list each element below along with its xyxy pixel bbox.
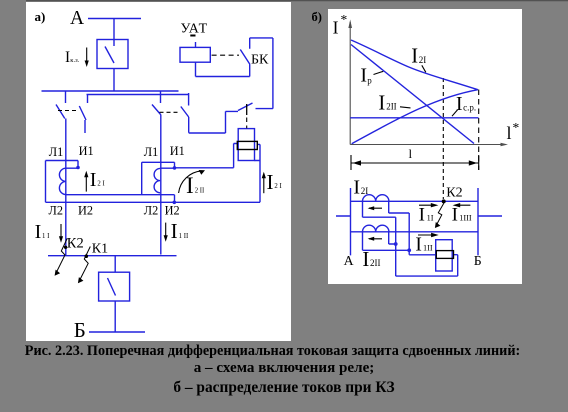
svg-text:I: I (452, 205, 458, 226)
svg-text:б): б) (312, 10, 322, 24)
svg-text:И2: И2 (78, 204, 93, 218)
svg-text:Б: Б (74, 318, 86, 342)
svg-text:I: I (456, 93, 463, 115)
svg-text:I: I (378, 93, 385, 115)
svg-text:*: * (513, 120, 520, 135)
svg-text:с.р.: с.р. (463, 102, 476, 112)
svg-text:I: I (186, 173, 194, 198)
svg-text:I: I (267, 170, 274, 194)
svg-text:I: I (415, 235, 422, 256)
svg-text:2II: 2II (386, 102, 397, 112)
svg-text:Б: Б (474, 253, 482, 268)
svg-text:1 II: 1 II (179, 233, 189, 240)
svg-text:И1: И1 (79, 144, 94, 158)
svg-text:I: I (171, 219, 178, 243)
svg-text:А: А (70, 8, 84, 29)
svg-text:I: I (419, 205, 425, 226)
svg-text:Л2: Л2 (49, 204, 64, 218)
svg-text:а): а) (35, 9, 46, 24)
svg-text:УАТ: УАТ (181, 22, 209, 37)
svg-text:I: I (411, 46, 418, 68)
svg-text:к.з.: к.з. (70, 57, 79, 64)
svg-text:2I: 2I (361, 186, 369, 196)
svg-text:2 I: 2 I (274, 183, 282, 190)
svg-text:И2: И2 (165, 204, 180, 218)
svg-text:1II: 1II (423, 243, 433, 252)
svg-text:К2: К2 (67, 235, 84, 251)
svg-text:l: l (409, 146, 413, 161)
svg-text:2 II: 2 II (195, 187, 205, 194)
svg-text:К2: К2 (446, 185, 462, 200)
svg-text:2II: 2II (370, 258, 381, 268)
svg-text:Л1: Л1 (49, 145, 64, 159)
svg-text:I: I (360, 64, 367, 86)
svg-text:2 I: 2 I (97, 180, 105, 187)
svg-text:1III: 1III (459, 214, 472, 223)
svg-text:А: А (344, 253, 354, 268)
svg-text:l: l (507, 123, 512, 143)
svg-text:1I: 1I (427, 214, 434, 223)
svg-text:I: I (35, 221, 42, 243)
svg-text:БК: БК (251, 53, 269, 68)
svg-text:К1: К1 (92, 242, 108, 257)
svg-text:I: I (333, 18, 339, 38)
svg-text:Л1: Л1 (144, 145, 159, 159)
svg-text:I: I (353, 177, 360, 199)
svg-text:*: * (341, 12, 348, 27)
svg-text:Л2: Л2 (144, 204, 159, 218)
svg-text:р: р (367, 75, 372, 85)
svg-text:I: I (362, 247, 369, 271)
svg-text:I: I (90, 169, 97, 191)
svg-text:2I: 2I (419, 55, 427, 65)
svg-text:И1: И1 (170, 144, 185, 158)
svg-text:1 I: 1 I (42, 233, 50, 240)
